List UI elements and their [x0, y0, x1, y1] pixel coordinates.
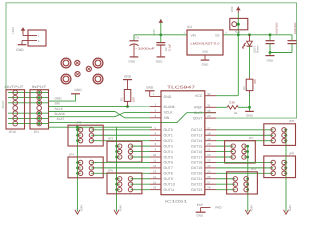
svg-text:GND: GND	[202, 62, 210, 66]
svg-text:EXP: EXP	[197, 203, 203, 207]
svg-text:PAD: PAD	[215, 205, 222, 209]
svg-text:GND: GND	[124, 74, 132, 78]
svg-text:OUT22: OUT22	[191, 183, 202, 187]
svg-text:OUT11: OUT11	[164, 188, 175, 192]
svg-text:OUT0: OUT0	[164, 128, 173, 132]
svg-text:R3: R3	[242, 86, 246, 90]
svg-text:IREF: IREF	[194, 106, 202, 110]
svg-text:10K: 10K	[131, 97, 135, 102]
svg-text:Green: Green	[256, 45, 260, 53]
svg-text:XLAT: XLAT	[57, 117, 65, 121]
svg-text:GND: GND	[196, 213, 204, 217]
svg-text:13: 13	[153, 169, 157, 173]
svg-text:32: 32	[207, 92, 211, 96]
svg-text:VCC: VCC	[195, 94, 203, 98]
svg-text:26: 26	[207, 175, 211, 179]
svg-text:IC10S1: IC10S1	[165, 199, 187, 203]
svg-text:30: 30	[207, 109, 211, 113]
svg-text:SCLK: SCLK	[164, 111, 174, 115]
svg-text:JP7: JP7	[249, 136, 255, 140]
svg-text:10uF/16V: 10uF/16V	[294, 22, 297, 34]
svg-text:OUT7: OUT7	[164, 166, 173, 170]
svg-text:31: 31	[207, 103, 211, 107]
svg-text:TLC5947: TLC5947	[167, 85, 196, 90]
svg-text:OUT4: OUT4	[164, 150, 173, 154]
svg-text:GND: GND	[146, 85, 154, 89]
svg-text:OUT16: OUT16	[191, 150, 202, 154]
svg-text:OUT5: OUT5	[164, 155, 173, 159]
svg-text:GND: GND	[74, 88, 82, 92]
svg-text:14: 14	[153, 175, 157, 179]
svg-text:JP10: JP10	[9, 130, 16, 134]
svg-text:OUT9: OUT9	[164, 177, 173, 181]
svg-text:21: 21	[207, 148, 211, 152]
svg-text:SCLK: SCLK	[55, 107, 64, 111]
svg-text:11: 11	[153, 159, 156, 163]
svg-text:OUT23: OUT23	[191, 188, 202, 192]
svg-text:JP8: JP8	[289, 151, 295, 155]
svg-text:OUT12: OUT12	[191, 128, 202, 132]
svg-text:GND: GND	[129, 59, 137, 63]
svg-text:OUT19: OUT19	[191, 166, 202, 170]
svg-text:0.1uF: 0.1uF	[168, 44, 172, 51]
svg-text:SIN: SIN	[55, 102, 61, 106]
svg-text:OUT15: OUT15	[191, 144, 202, 148]
svg-text:SIN: SIN	[164, 116, 170, 120]
svg-text:20: 20	[207, 142, 211, 146]
svg-text:SJ1: SJ1	[235, 30, 241, 34]
svg-text:VIN: VIN	[191, 34, 197, 38]
svg-text:+24V: +24V	[118, 205, 122, 212]
svg-text:GND: GND	[55, 96, 63, 100]
svg-text:28: 28	[207, 186, 211, 190]
svg-text:BLANK: BLANK	[164, 105, 176, 109]
svg-text:~1000uF: ~1000uF	[135, 46, 155, 50]
svg-text:10uF/16V: 10uF/16V	[276, 22, 279, 34]
svg-text:OUT10: OUT10	[164, 183, 175, 187]
svg-text:JP2: JP2	[76, 121, 82, 125]
svg-text:OUT18: OUT18	[191, 161, 202, 165]
svg-text:SOUT: SOUT	[193, 116, 204, 120]
svg-text:SOUT: SOUT	[1, 100, 5, 109]
svg-text:470: 470	[253, 79, 257, 84]
svg-text:GND: GND	[164, 95, 172, 99]
svg-text:XLAT: XLAT	[194, 111, 203, 115]
svg-text:27: 27	[207, 180, 211, 184]
svg-text:12: 12	[153, 164, 157, 168]
svg-text:GND: GND	[202, 51, 208, 54]
svg-text:OUT13: OUT13	[191, 134, 202, 138]
svg-text:BLANK: BLANK	[55, 112, 66, 116]
svg-text:JP9: JP9	[251, 167, 257, 171]
svg-text:25: 25	[207, 169, 211, 173]
svg-text:+24V: +24V	[288, 205, 292, 212]
svg-text:OUTPUT: OUTPUT	[5, 85, 24, 89]
svg-text:15: 15	[153, 180, 157, 184]
svg-text:+24V: +24V	[250, 205, 254, 212]
svg-text:16: 16	[153, 186, 157, 190]
svg-text:OUT2: OUT2	[164, 139, 173, 143]
svg-text:+24V: +24V	[11, 27, 15, 34]
svg-text:GND: GND	[267, 58, 275, 62]
svg-text:R2: R2	[119, 97, 123, 101]
svg-text:R1: R1	[234, 111, 238, 115]
svg-text:3.3K: 3.3K	[229, 101, 235, 105]
svg-text:OUT14: OUT14	[191, 139, 202, 143]
svg-text:OUT1: OUT1	[164, 134, 173, 138]
svg-text:LM2931ADT-5.0: LM2931ADT-5.0	[191, 41, 221, 45]
svg-text:VCC: VCC	[230, 5, 234, 12]
svg-text:OUT20: OUT20	[191, 172, 202, 176]
svg-text:VO: VO	[215, 34, 220, 38]
svg-text:24: 24	[207, 164, 211, 168]
svg-text:29: 29	[207, 114, 211, 118]
svg-text:18: 18	[207, 131, 211, 135]
svg-text:GND: GND	[246, 114, 254, 118]
svg-text:JP3: JP3	[108, 137, 114, 141]
svg-text:+24V: +24V	[79, 205, 83, 212]
svg-text:GND: GND	[156, 59, 164, 63]
svg-text:JP1: JP1	[34, 130, 40, 134]
svg-text:JP4: JP4	[69, 152, 75, 156]
svg-text:10: 10	[153, 153, 157, 157]
svg-text:19: 19	[207, 137, 211, 141]
svg-text:INPUT: INPUT	[32, 85, 47, 89]
svg-text:17: 17	[207, 126, 211, 130]
svg-text:JP6: JP6	[289, 119, 295, 123]
svg-text:C4: C4	[136, 35, 140, 39]
svg-text:OUT21: OUT21	[191, 177, 202, 181]
svg-text:OUT8: OUT8	[164, 172, 173, 176]
svg-text:23: 23	[207, 159, 211, 163]
svg-text:IC2: IC2	[187, 25, 192, 29]
svg-text:JP5: JP5	[108, 168, 114, 172]
svg-text:OUT6: OUT6	[164, 161, 173, 165]
svg-text:22: 22	[207, 153, 211, 157]
svg-text:OUT17: OUT17	[191, 155, 202, 159]
svg-text:OUT3: OUT3	[164, 144, 173, 148]
svg-text:GND: GND	[16, 48, 24, 52]
svg-text:+24V: +24V	[152, 29, 156, 36]
